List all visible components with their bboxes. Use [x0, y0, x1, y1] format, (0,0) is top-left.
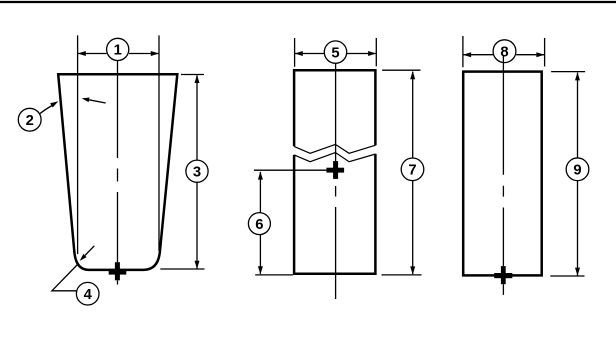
- break line upper: [294, 144, 376, 153]
- callout circle 2: [18, 108, 41, 131]
- cup inner wall line right: [158, 35, 160, 251]
- callout circle 9: [566, 158, 589, 181]
- beaker center mark plus: [326, 161, 344, 179]
- dimension 8 extension lines: [463, 36, 545, 67]
- beaker outline (middle figure): [293, 69, 377, 275]
- svg-text:5: 5: [331, 45, 339, 61]
- svg-text:9: 9: [573, 163, 581, 179]
- dimension 9 extension lines: [550, 72, 585, 276]
- dimension line 7: [412, 72, 414, 274]
- dimension line 5: [295, 53, 377, 55]
- dimension 5 extension lines: [295, 38, 377, 67]
- callout circle 6: [248, 213, 270, 235]
- dimension line 6: [259, 172, 261, 274]
- svg-text:6: 6: [255, 217, 263, 233]
- callout 2 leader arrow: [40, 106, 53, 114]
- dimension line 8: [463, 54, 545, 56]
- dimension 7 extension lines: [382, 70, 422, 275]
- cylinder center mark plus: [494, 266, 512, 284]
- dimension line 3: [196, 75, 198, 268]
- dimension line 9: [577, 73, 579, 276]
- callout circle 5: [324, 41, 346, 63]
- cylinder centerline: [502, 55, 504, 295]
- svg-text:7: 7: [408, 163, 416, 179]
- svg-text:4: 4: [84, 287, 93, 303]
- cup inner wall line left: [77, 35, 79, 254]
- callout circle 8: [493, 40, 516, 63]
- svg-text:3: 3: [193, 165, 201, 181]
- dimension 3 extension lines: [160, 75, 204, 270]
- callout circle 4: [76, 282, 99, 305]
- top border rule: [0, 1, 616, 3]
- callout circle 1: [107, 38, 129, 60]
- svg-text:2: 2: [26, 113, 34, 129]
- callout circle 3: [186, 160, 208, 182]
- cup centerline: [117, 61, 119, 285]
- cup center mark plus: [109, 262, 127, 280]
- callout circle 7: [401, 158, 424, 181]
- svg-text:1: 1: [114, 43, 122, 59]
- cup outline (left figure): [58, 74, 177, 270]
- dimension 6 extension lines: [254, 170, 327, 275]
- bottom corner pointer arrow: [85, 246, 94, 256]
- beaker centerline: [335, 63, 337, 299]
- inner surface pointer arrow: [89, 100, 106, 103]
- svg-text:8: 8: [500, 45, 508, 61]
- dimension line 1: [78, 53, 159, 55]
- callout 4 leader: [52, 264, 79, 291]
- break line lower: [294, 153, 376, 162]
- cylinder outline (right figure): [463, 72, 542, 276]
